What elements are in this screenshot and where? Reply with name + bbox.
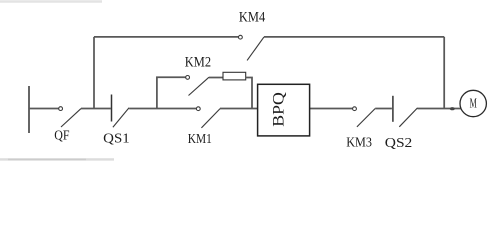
svg-text:KM1: KM1 — [188, 132, 212, 147]
svg-text:QS2: QS2 — [385, 136, 413, 151]
svg-text:QS1: QS1 — [103, 131, 130, 146]
svg-text:KM4: KM4 — [239, 10, 265, 26]
svg-text:BPQ: BPQ — [270, 92, 287, 127]
svg-text:QF: QF — [54, 128, 69, 143]
svg-text:KM2: KM2 — [185, 55, 211, 71]
svg-text:KM3: KM3 — [346, 136, 372, 151]
svg-text:M: M — [470, 97, 478, 112]
